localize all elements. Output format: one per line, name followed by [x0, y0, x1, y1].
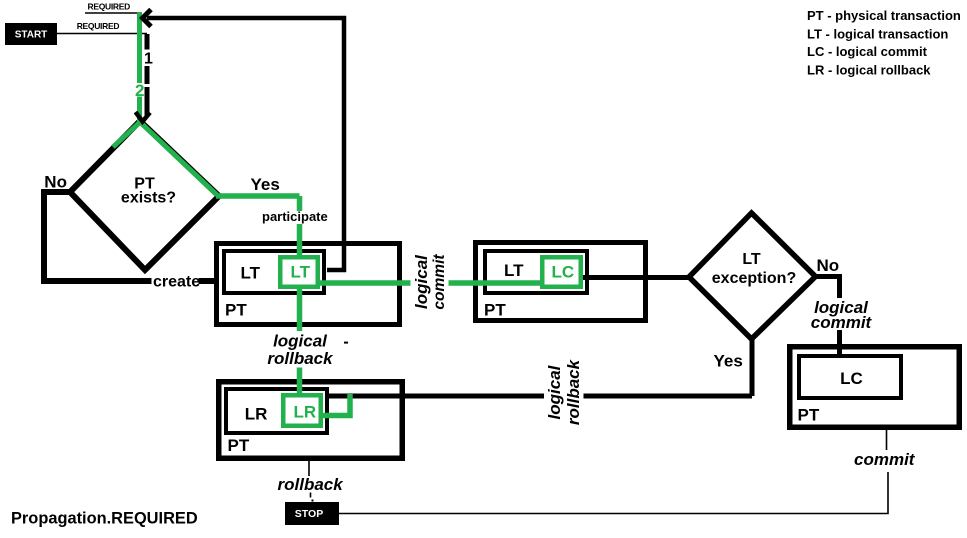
svg-text:LT: LT: [742, 251, 761, 268]
svg-text:LC: LC: [552, 263, 575, 282]
green LT sub-box 1: [280, 257, 318, 287]
LC box 3 inner: [799, 356, 901, 398]
thin wire STOP to commit branch: [339, 430, 888, 514]
green LR sub-box 4: [283, 395, 321, 426]
LT box 1 inner: [224, 251, 324, 293]
svg-text:exception?: exception?: [712, 270, 796, 287]
svg-text:LC: LC: [840, 369, 863, 388]
svg-text:LT: LT: [291, 263, 311, 282]
wire No branch to PT box 3: [815, 277, 840, 357]
svg-text:exists?: exists?: [121, 190, 176, 207]
svg-text:PT: PT: [484, 301, 506, 320]
wire Yes branch from exception diamond: [327, 339, 752, 396]
svg-text:LT - logical transaction: LT - logical transaction: [807, 27, 948, 42]
PT box 2 (second physical transaction): [476, 243, 646, 321]
svg-text:participate: participate: [262, 209, 328, 224]
No branch wire (create path): [44, 192, 216, 281]
green wire diamond edges overlay: [113, 122, 217, 195]
svg-text:LC - logical commit: LC - logical commit: [807, 44, 928, 59]
svg-text:commit: commit: [854, 450, 916, 469]
green Yes wire to participate: [216, 196, 300, 257]
svg-text:No: No: [817, 256, 840, 275]
svg-text:LR - logical rollback: LR - logical rollback: [807, 62, 931, 77]
wire return loop from first PT box up and left to arrow: [147, 18, 344, 270]
svg-text:logical: logical: [273, 331, 328, 350]
wire underline of outer REQUIRED: [85, 12, 142, 14]
arrowhead pointing left at top junction: [143, 10, 152, 27]
svg-text:commit: commit: [431, 254, 448, 310]
svg-text:commit: commit: [811, 313, 873, 332]
wire rollback into LR box: [329, 394, 405, 399]
svg-text:REQUIRED: REQUIRED: [77, 21, 120, 31]
wire into LC box3: [837, 344, 842, 356]
wire from START to junction: [57, 33, 147, 35]
svg-text:2: 2: [135, 81, 144, 100]
green elbow wire into LR: [323, 394, 350, 416]
wire return elbow to inner LT box: [327, 243, 344, 270]
green wire logical rollback vertical below box1: [297, 289, 303, 331]
START terminator box: [5, 23, 57, 45]
svg-text:create: create: [153, 274, 200, 291]
PT box 3 (commit physical transaction): [790, 347, 960, 428]
svg-text:START: START: [15, 30, 48, 41]
svg-text:PT: PT: [798, 406, 820, 425]
svg-text:PT: PT: [228, 436, 250, 455]
LT box 2 inner: [485, 251, 587, 293]
green wire rollback into LR box top: [297, 368, 303, 396]
svg-text:Yes: Yes: [251, 175, 280, 194]
svg-text:No: No: [44, 172, 67, 191]
svg-text:logical: logical: [412, 254, 431, 309]
green main vertical wire from top: [137, 13, 142, 125]
svg-text:rollback: rollback: [564, 358, 583, 425]
svg-text:LT: LT: [504, 261, 524, 280]
PT box 1 (first physical transaction): [217, 244, 400, 325]
dot artifact above STOP: [312, 500, 314, 502]
LR box 4 inner: [226, 389, 327, 433]
svg-text:logical: logical: [545, 364, 564, 419]
thin wire box4 to STOP: [309, 461, 311, 498]
svg-text:rollback: rollback: [278, 475, 345, 494]
arrowhead pointing down into diamond: [136, 112, 151, 122]
svg-text:LR: LR: [245, 405, 268, 424]
svg-text:Propagation.REQUIRED: Propagation.REQUIRED: [11, 510, 198, 528]
svg-text:REQUIRED: REQUIRED: [88, 1, 131, 11]
svg-text:STOP: STOP: [295, 508, 323, 520]
diamond LT exception?: [689, 213, 816, 339]
svg-text:1: 1: [144, 51, 153, 68]
svg-text:LR: LR: [294, 403, 317, 422]
svg-text:PT - physical transaction: PT - physical transaction: [807, 8, 961, 23]
wire LC to exception diamond: [583, 275, 691, 280]
green wire logical commit horizontal: [320, 280, 542, 286]
diamond PT exists?: [70, 121, 219, 270]
stray dash mark: [344, 342, 348, 344]
PT box 4 (rollback physical transaction): [219, 382, 403, 459]
dashed black wire (call 1) down to diamond: [145, 34, 150, 115]
green wire into LC: [473, 280, 542, 286]
STOP terminator box: [285, 502, 339, 525]
svg-text:rollback: rollback: [267, 349, 334, 368]
green LC sub-box 2: [542, 257, 581, 287]
svg-text:LT: LT: [241, 263, 261, 282]
svg-text:Yes: Yes: [714, 352, 743, 371]
svg-text:PT: PT: [225, 301, 247, 320]
